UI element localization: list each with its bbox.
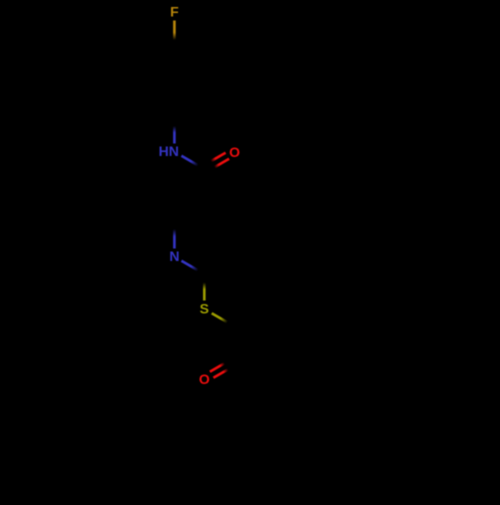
bond N-C(=O) amide (blue half from N, fades) xyxy=(0,0,1,1)
bond C6(pyridine)-N1 vertical (blue half above N label) xyxy=(0,0,1,1)
svg-text:HN: HN xyxy=(159,143,179,159)
bond C4(ring1)-N amide (blue half above HN label) xyxy=(0,0,1,1)
bond N1-C2 pyridine (blue half from N, fades) xyxy=(0,0,1,1)
bond S-CH2 (yellow half from S, fades) xyxy=(0,0,1,1)
svg-text:F: F xyxy=(170,3,179,19)
svg-text:S: S xyxy=(200,301,209,317)
bond C=O ketone double bond (red halves near lower O) xyxy=(0,0,1,1)
bond F-C1 (gold half, fades to black) xyxy=(0,0,1,1)
bond C2-S (yellow half above S label) xyxy=(0,0,1,1)
svg-text:O: O xyxy=(199,371,210,387)
svg-text:N: N xyxy=(169,248,179,264)
svg-text:O: O xyxy=(229,144,240,160)
bond C=O amide double bond (red halves near O) xyxy=(0,0,1,1)
